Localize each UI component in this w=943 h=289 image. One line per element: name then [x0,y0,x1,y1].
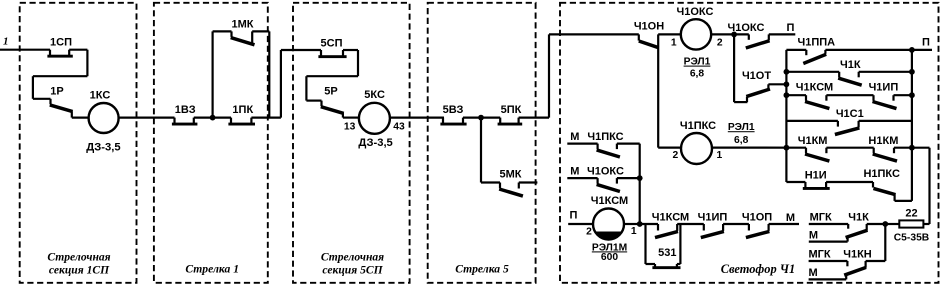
svg-text:секция 5СП: секция 5СП [322,264,383,277]
svg-text:РЭЛ1: РЭЛ1 [684,57,711,68]
svg-text:1СП: 1СП [50,36,72,48]
svg-text:13: 13 [344,122,356,133]
svg-text:Ч1ОКС: Ч1ОКС [677,6,714,18]
svg-text:Н1КМ: Н1КМ [868,135,898,147]
svg-text:М: М [786,212,795,224]
svg-text:Стрелочная: Стрелочная [321,251,384,264]
svg-text:Ч1КСМ: Ч1КСМ [796,81,833,93]
svg-text:Ч1КН: Ч1КН [843,248,872,260]
svg-text:2: 2 [586,226,592,237]
svg-text:Светофор Ч1: Светофор Ч1 [721,262,795,276]
svg-text:5ВЗ: 5ВЗ [443,104,464,116]
svg-text:Ч1ОН: Ч1ОН [634,20,664,32]
svg-text:531: 531 [658,247,676,259]
svg-text:М: М [570,131,579,143]
svg-text:МГК: МГК [810,212,832,224]
svg-text:1ВЗ: 1ВЗ [175,104,196,116]
svg-text:П: П [570,210,578,222]
svg-text:Ч1ПКС: Ч1ПКС [680,120,716,132]
svg-text:П: П [786,22,794,34]
svg-text:1: 1 [3,36,9,48]
svg-text:Ч1ОКС: Ч1ОКС [587,165,624,177]
svg-text:Ч1К: Ч1К [848,212,869,224]
svg-text:5Р: 5Р [324,85,337,97]
svg-text:МГК: МГК [808,248,830,260]
svg-text:6,8: 6,8 [690,69,705,80]
svg-text:5КС: 5КС [364,89,385,101]
svg-text:1МК: 1МК [232,18,254,30]
svg-text:Ч1ИП: Ч1ИП [869,81,899,93]
svg-text:22: 22 [905,207,917,219]
svg-text:5МК: 5МК [500,169,522,181]
svg-text:ДЗ-3,5: ДЗ-3,5 [86,142,120,154]
svg-text:Ч1С1: Ч1С1 [836,108,864,120]
svg-text:2: 2 [717,38,723,49]
svg-text:М: М [570,165,579,177]
svg-text:1: 1 [717,150,723,161]
svg-text:Ч1КСМ: Ч1КСМ [591,195,628,207]
svg-text:1: 1 [631,226,637,237]
svg-text:РЭЛ1: РЭЛ1 [728,122,755,133]
svg-text:Ч1ПКС: Ч1ПКС [587,131,623,143]
svg-text:М: М [809,230,818,242]
svg-text:секция 1СП: секция 1СП [49,264,110,277]
svg-text:Стрелка 1: Стрелка 1 [185,263,239,276]
svg-text:5СП: 5СП [321,37,343,49]
svg-text:М: М [809,267,818,279]
svg-text:Ч1ОП: Ч1ОП [742,212,772,224]
svg-text:Ч1ППА: Ч1ППА [797,37,835,49]
svg-text:Стрелочная: Стрелочная [47,251,110,264]
svg-text:С5-35В: С5-35В [894,233,929,244]
svg-text:Ч1К: Ч1К [840,59,861,71]
svg-text:6,8: 6,8 [734,135,749,146]
svg-text:Ч1ОТ: Ч1ОТ [742,70,771,82]
svg-text:П: П [922,37,930,49]
svg-text:Ч1КМ: Ч1КМ [798,135,828,147]
svg-text:5ПК: 5ПК [501,104,522,116]
svg-text:1Р: 1Р [50,86,63,98]
svg-text:Н1И: Н1И [805,169,827,181]
svg-text:Н1ПКС: Н1ПКС [863,168,900,180]
svg-text:1ПК: 1ПК [232,104,253,116]
svg-text:Стрелка 5: Стрелка 5 [455,263,509,276]
svg-text:Ч1КСМ: Ч1КСМ [652,212,689,224]
svg-text:Ч1ОКС: Ч1ОКС [728,22,765,34]
svg-text:1: 1 [671,38,677,49]
svg-text:ДЗ-3,5: ДЗ-3,5 [358,137,392,149]
svg-text:2: 2 [673,150,679,161]
svg-text:43: 43 [393,122,405,133]
svg-text:600: 600 [601,252,618,263]
svg-text:1КС: 1КС [90,89,111,101]
svg-text:Ч1ИП: Ч1ИП [698,212,728,224]
